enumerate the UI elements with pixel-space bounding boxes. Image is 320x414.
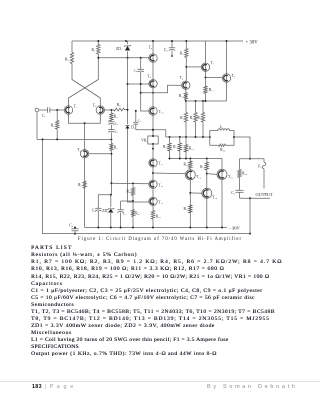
svg-text:T₈: T₈: [232, 74, 236, 78]
svg-text:C₉: C₉: [231, 191, 235, 195]
wire bus3: [169, 158, 223, 170]
resistor R24: [238, 159, 248, 191]
resistor R12: [180, 101, 187, 137]
wire C7 to tap: [136, 129, 153, 131]
wire input ground drop: [36, 112, 38, 140]
transistor T15b: [202, 188, 218, 199]
input terminal: [35, 108, 39, 112]
resistor R3: [78, 158, 86, 228]
wire jog: [98, 194, 112, 209]
resistor R5: [114, 103, 129, 111]
svg-text:+ 30V: + 30V: [246, 41, 259, 46]
resistor R17b: [200, 159, 208, 175]
wire R7 to T9: [185, 58, 187, 81]
wire T5 base net: [97, 57, 149, 59]
transistor T10: [149, 107, 164, 115]
transistor T11: [149, 159, 163, 167]
svg-text:R₁₈: R₁₈: [163, 145, 169, 149]
capacitor C5: [164, 40, 175, 57]
svg-text:OUTPUT: OUTPUT: [256, 192, 273, 197]
circuit schematic figure: [0, 0, 320, 236]
resistor R10: [179, 89, 188, 99]
wire T6e to T9 base: [141, 85, 182, 93]
wire R10 to bus1: [185, 100, 187, 102]
svg-text:T₉: T₉: [180, 76, 184, 80]
zener ZD2: [102, 195, 114, 228]
svg-text:R₁₃: R₁₃: [190, 116, 196, 120]
wire T7 collector: [205, 41, 207, 63]
capacitor C3: [108, 125, 118, 140]
wire ground rail: [43, 139, 251, 234]
resistor R25: [210, 136, 235, 152]
wire +30V supply rail: [72, 40, 243, 42]
wire -30V rail: [85, 227, 227, 229]
svg-text:T₁₅: T₁₅: [228, 175, 233, 179]
capacitor C8: [92, 208, 102, 227]
svg-text:D₁: D₁: [131, 126, 135, 130]
svg-text:R₁₇: R₁₇: [184, 207, 190, 211]
wire input ground rail: [37, 138, 112, 140]
svg-text:R₁₂: R₁₂: [180, 116, 186, 120]
resistor R17: [184, 205, 193, 213]
resistor R4: [65, 41, 74, 64]
figure caption: [0, 237, 320, 242]
wire output tap: [152, 129, 166, 137]
transistor T13: [149, 197, 164, 205]
wire R2 to T1 collector (cross): [69, 54, 99, 106]
svg-text:VR₁: VR₁: [141, 139, 147, 143]
svg-text:C₄: C₄: [69, 223, 73, 227]
zener ZD1: [116, 41, 131, 51]
capacitor C2: [108, 122, 118, 126]
transistor T4: [77, 148, 89, 158]
wire T7 emitter: [205, 72, 207, 79]
wire out horiz: [240, 158, 265, 160]
resistor R9: [110, 139, 118, 194]
diode D1: [125, 126, 135, 130]
svg-text:R₂₂: R₂₂: [156, 215, 162, 219]
wire T15b emitter: [206, 198, 208, 227]
resistor R19: [173, 137, 181, 159]
wire feedback to T12 base: [111, 182, 148, 184]
resistor R16: [184, 159, 193, 170]
resistor R22: [151, 206, 161, 228]
wire R4 to T2 collector (cross): [72, 64, 100, 106]
capacitor C6: [117, 201, 126, 228]
resistor R14: [197, 101, 204, 137]
svg-text:R₁₆: R₁₆: [184, 163, 190, 167]
wire T11-T12: [152, 167, 154, 180]
transistor T2: [93, 104, 105, 115]
svg-text:ZD₁: ZD₁: [116, 47, 122, 51]
transistor T6: [148, 75, 158, 88]
svg-text:R₁₅: R₁₅: [189, 147, 195, 151]
wire T8 collector: [226, 40, 228, 74]
wire to T15 base: [207, 173, 217, 176]
footer: [0, 381, 320, 414]
wire bus2 output node: [166, 136, 211, 138]
transistor T15: [217, 169, 233, 179]
capacitor C9: [231, 190, 243, 198]
wire T5-T6: [152, 62, 154, 79]
label +30V: [246, 41, 259, 46]
svg-text:R₂₀: R₂₀: [127, 190, 133, 194]
svg-text:R₉: R₉: [114, 146, 118, 150]
resistor R15: [184, 137, 194, 159]
wire tail to T4: [84, 123, 86, 149]
transistor T12: [149, 180, 164, 188]
wire to T7 base: [186, 66, 201, 68]
svg-text:C₇: C₇: [138, 119, 141, 123]
svg-text:C₆: C₆: [123, 212, 126, 216]
svg-text:T₁₄: T₁₄: [196, 175, 201, 179]
wire T6 emitter: [152, 88, 154, 94]
svg-text:R₂: R₂: [92, 48, 96, 52]
svg-text:C₆: C₆: [134, 69, 138, 73]
node ZD1 col y84: [127, 83, 129, 85]
parts list text: [31, 245, 320, 358]
svg-text:R₂₄: R₂₄: [242, 172, 248, 176]
resistor R21: [131, 201, 140, 228]
resistor R6: [110, 110, 118, 121]
svg-text:T₇: T₇: [211, 61, 215, 65]
svg-text:T₂: T₂: [93, 104, 97, 108]
resistor R18: [163, 137, 171, 159]
capacitor C6: [134, 58, 144, 73]
svg-text:R₄: R₄: [65, 58, 69, 62]
resistor R7: [180, 40, 188, 58]
svg-text:T₁: T₁: [74, 105, 77, 109]
svg-text:R₁₉: R₁₉: [173, 145, 179, 149]
resistor R20: [127, 183, 135, 201]
capacitor C4: [69, 223, 78, 233]
label -30V: [228, 226, 241, 231]
resistor R13: [190, 101, 197, 137]
wire ZD1 anode down: [127, 52, 129, 125]
wire to T10: [152, 93, 154, 107]
svg-text:R₂₁: R₂₁: [135, 212, 140, 216]
wire emitters T1 T2: [69, 114, 101, 124]
svg-text:L₁: L₁: [220, 125, 223, 129]
wire T14e to T15b: [190, 192, 202, 194]
svg-text:T₁₁: T₁₁: [158, 162, 163, 166]
svg-text:T₅: T₅: [149, 46, 153, 50]
svg-text:R₁₁: R₁₁: [209, 88, 214, 92]
svg-text:C₂: C₂: [115, 122, 118, 126]
node R2-ZD1: [97, 40, 127, 42]
transistor T5: [149, 46, 158, 63]
inductor L1: [210, 125, 234, 137]
wire T8 emitter: [226, 82, 228, 101]
svg-text:R₇: R₇: [180, 52, 184, 56]
svg-text:T₆: T₆: [148, 75, 152, 79]
capacitor C1: [39, 107, 65, 118]
transistor T1: [64, 105, 77, 115]
wire D1 down to T13 base: [128, 129, 149, 203]
svg-text:F₁: F₁: [258, 165, 261, 169]
wire T5 collector: [152, 40, 154, 54]
wire return line: [240, 197, 271, 199]
wire T12-T13: [152, 188, 154, 197]
svg-text:R₁₇: R₁₇: [200, 165, 206, 169]
svg-text:R₂₅: R₂₅: [220, 148, 226, 152]
wire T5base to T10 base column: [140, 72, 149, 111]
wire link y84: [128, 83, 149, 85]
wire T2 base to R5: [105, 109, 114, 111]
resistor R11: [204, 78, 214, 102]
transistor T9: [180, 76, 190, 89]
svg-text:R₅: R₅: [117, 103, 121, 107]
svg-text:R₆: R₆: [114, 115, 118, 119]
transistor T14: [185, 170, 201, 180]
transistor T8: [222, 74, 236, 82]
transistor T7: [201, 61, 215, 71]
wire bus1: [185, 100, 227, 102]
svg-text:ZD₂: ZD₂: [102, 209, 109, 213]
svg-text:T₁₃: T₁₃: [158, 201, 163, 205]
svg-text:R₁₄: R₁₄: [197, 116, 203, 120]
wire lower link: [121, 200, 134, 202]
svg-text:C₃: C₃: [115, 130, 118, 134]
wire T11e to T14 base: [153, 172, 185, 175]
capacitor C7: [133, 110, 141, 130]
svg-text:R₃: R₃: [78, 183, 82, 187]
wire output to fuse net: [234, 137, 251, 160]
wire T15 emitter: [221, 179, 223, 227]
node T1 base: [56, 109, 58, 111]
svg-text:T₁₅: T₁₅: [212, 196, 217, 200]
resistor R1: [51, 110, 59, 139]
svg-text:R₁₀: R₁₀: [179, 94, 185, 98]
svg-text:C₅: C₅: [164, 48, 168, 52]
svg-text:T₁₀: T₁₀: [159, 110, 164, 114]
fuse F1: [258, 159, 266, 189]
svg-text:– 30V: – 30V: [228, 226, 241, 231]
svg-text:R₁: R₁: [51, 124, 55, 128]
svg-text:T₁₂: T₁₂: [158, 184, 163, 188]
wire T7e to T8 base: [206, 77, 223, 79]
wire T15b col: [206, 174, 208, 189]
wire T4 base link: [89, 153, 111, 155]
node T7 base tap: [185, 66, 187, 68]
preset VR1: [141, 115, 158, 159]
wire return drop: [249, 198, 251, 234]
wire T14 emitter: [189, 180, 191, 228]
svg-text:C₁: C₁: [42, 114, 46, 118]
resistor R2: [92, 41, 101, 54]
label OUTPUT: [256, 192, 273, 197]
